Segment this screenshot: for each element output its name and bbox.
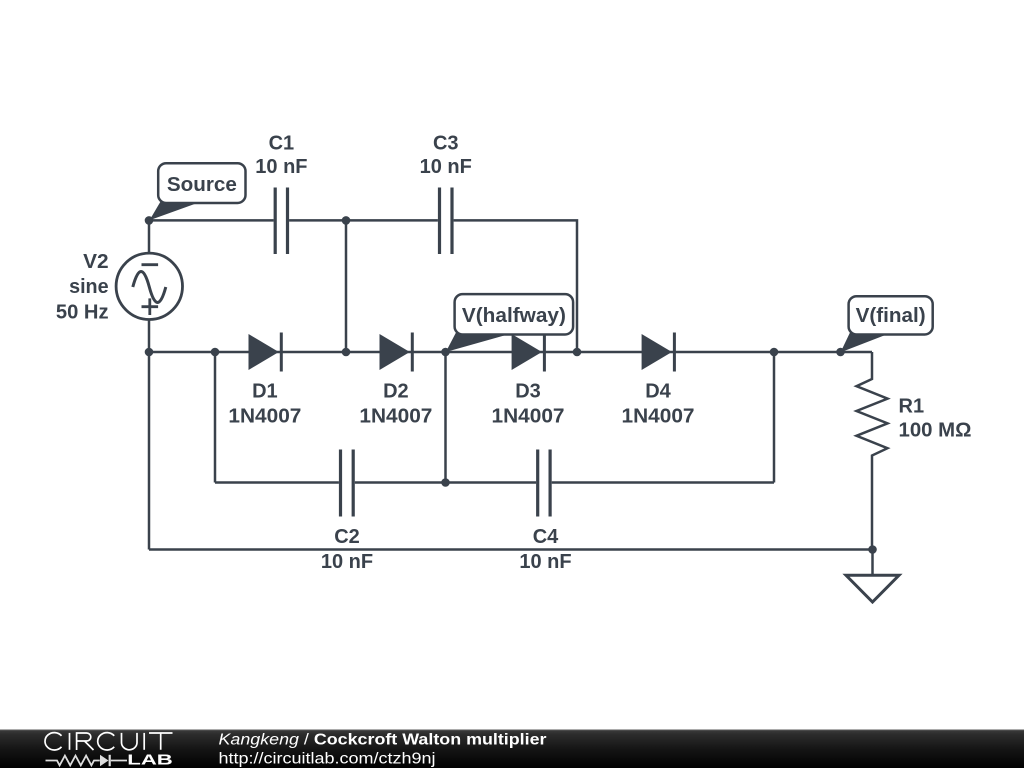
svg-text:10 nF: 10 nF [255,156,307,178]
svg-text:sine: sine [69,276,109,298]
svg-text:1N4007: 1N4007 [622,405,695,427]
svg-text:D1: D1 [252,380,278,402]
svg-text:D4: D4 [645,380,671,402]
svg-text:http://circuitlab.com/ctzh9nj: http://circuitlab.com/ctzh9nj [219,750,436,767]
svg-text:1N4007: 1N4007 [359,405,432,427]
svg-text:C4: C4 [533,526,559,548]
svg-text:C3: C3 [433,132,459,154]
svg-text:LAB: LAB [127,751,173,768]
svg-text:10 nF: 10 nF [321,551,373,573]
svg-text:10 nF: 10 nF [519,551,571,573]
svg-text:1N4007: 1N4007 [228,405,301,427]
svg-text:100 MΩ: 100 MΩ [899,420,972,442]
svg-text:R1: R1 [899,395,925,417]
svg-text:1N4007: 1N4007 [492,405,565,427]
svg-text:C2: C2 [334,526,360,548]
svg-text:10 nF: 10 nF [420,156,472,178]
svg-text:D2: D2 [383,380,409,402]
svg-text:V2: V2 [83,251,109,273]
svg-text:Source: Source [167,174,237,196]
svg-text:D3: D3 [515,380,541,402]
svg-text:C1: C1 [269,132,295,154]
svg-text:V(halfway): V(halfway) [462,305,566,327]
svg-text:50 Hz: 50 Hz [56,302,109,324]
svg-text:V(final): V(final) [856,305,926,327]
svg-text:Kangkeng / Cockcroft Walton mu: Kangkeng / Cockcroft Walton multiplier [219,731,547,748]
